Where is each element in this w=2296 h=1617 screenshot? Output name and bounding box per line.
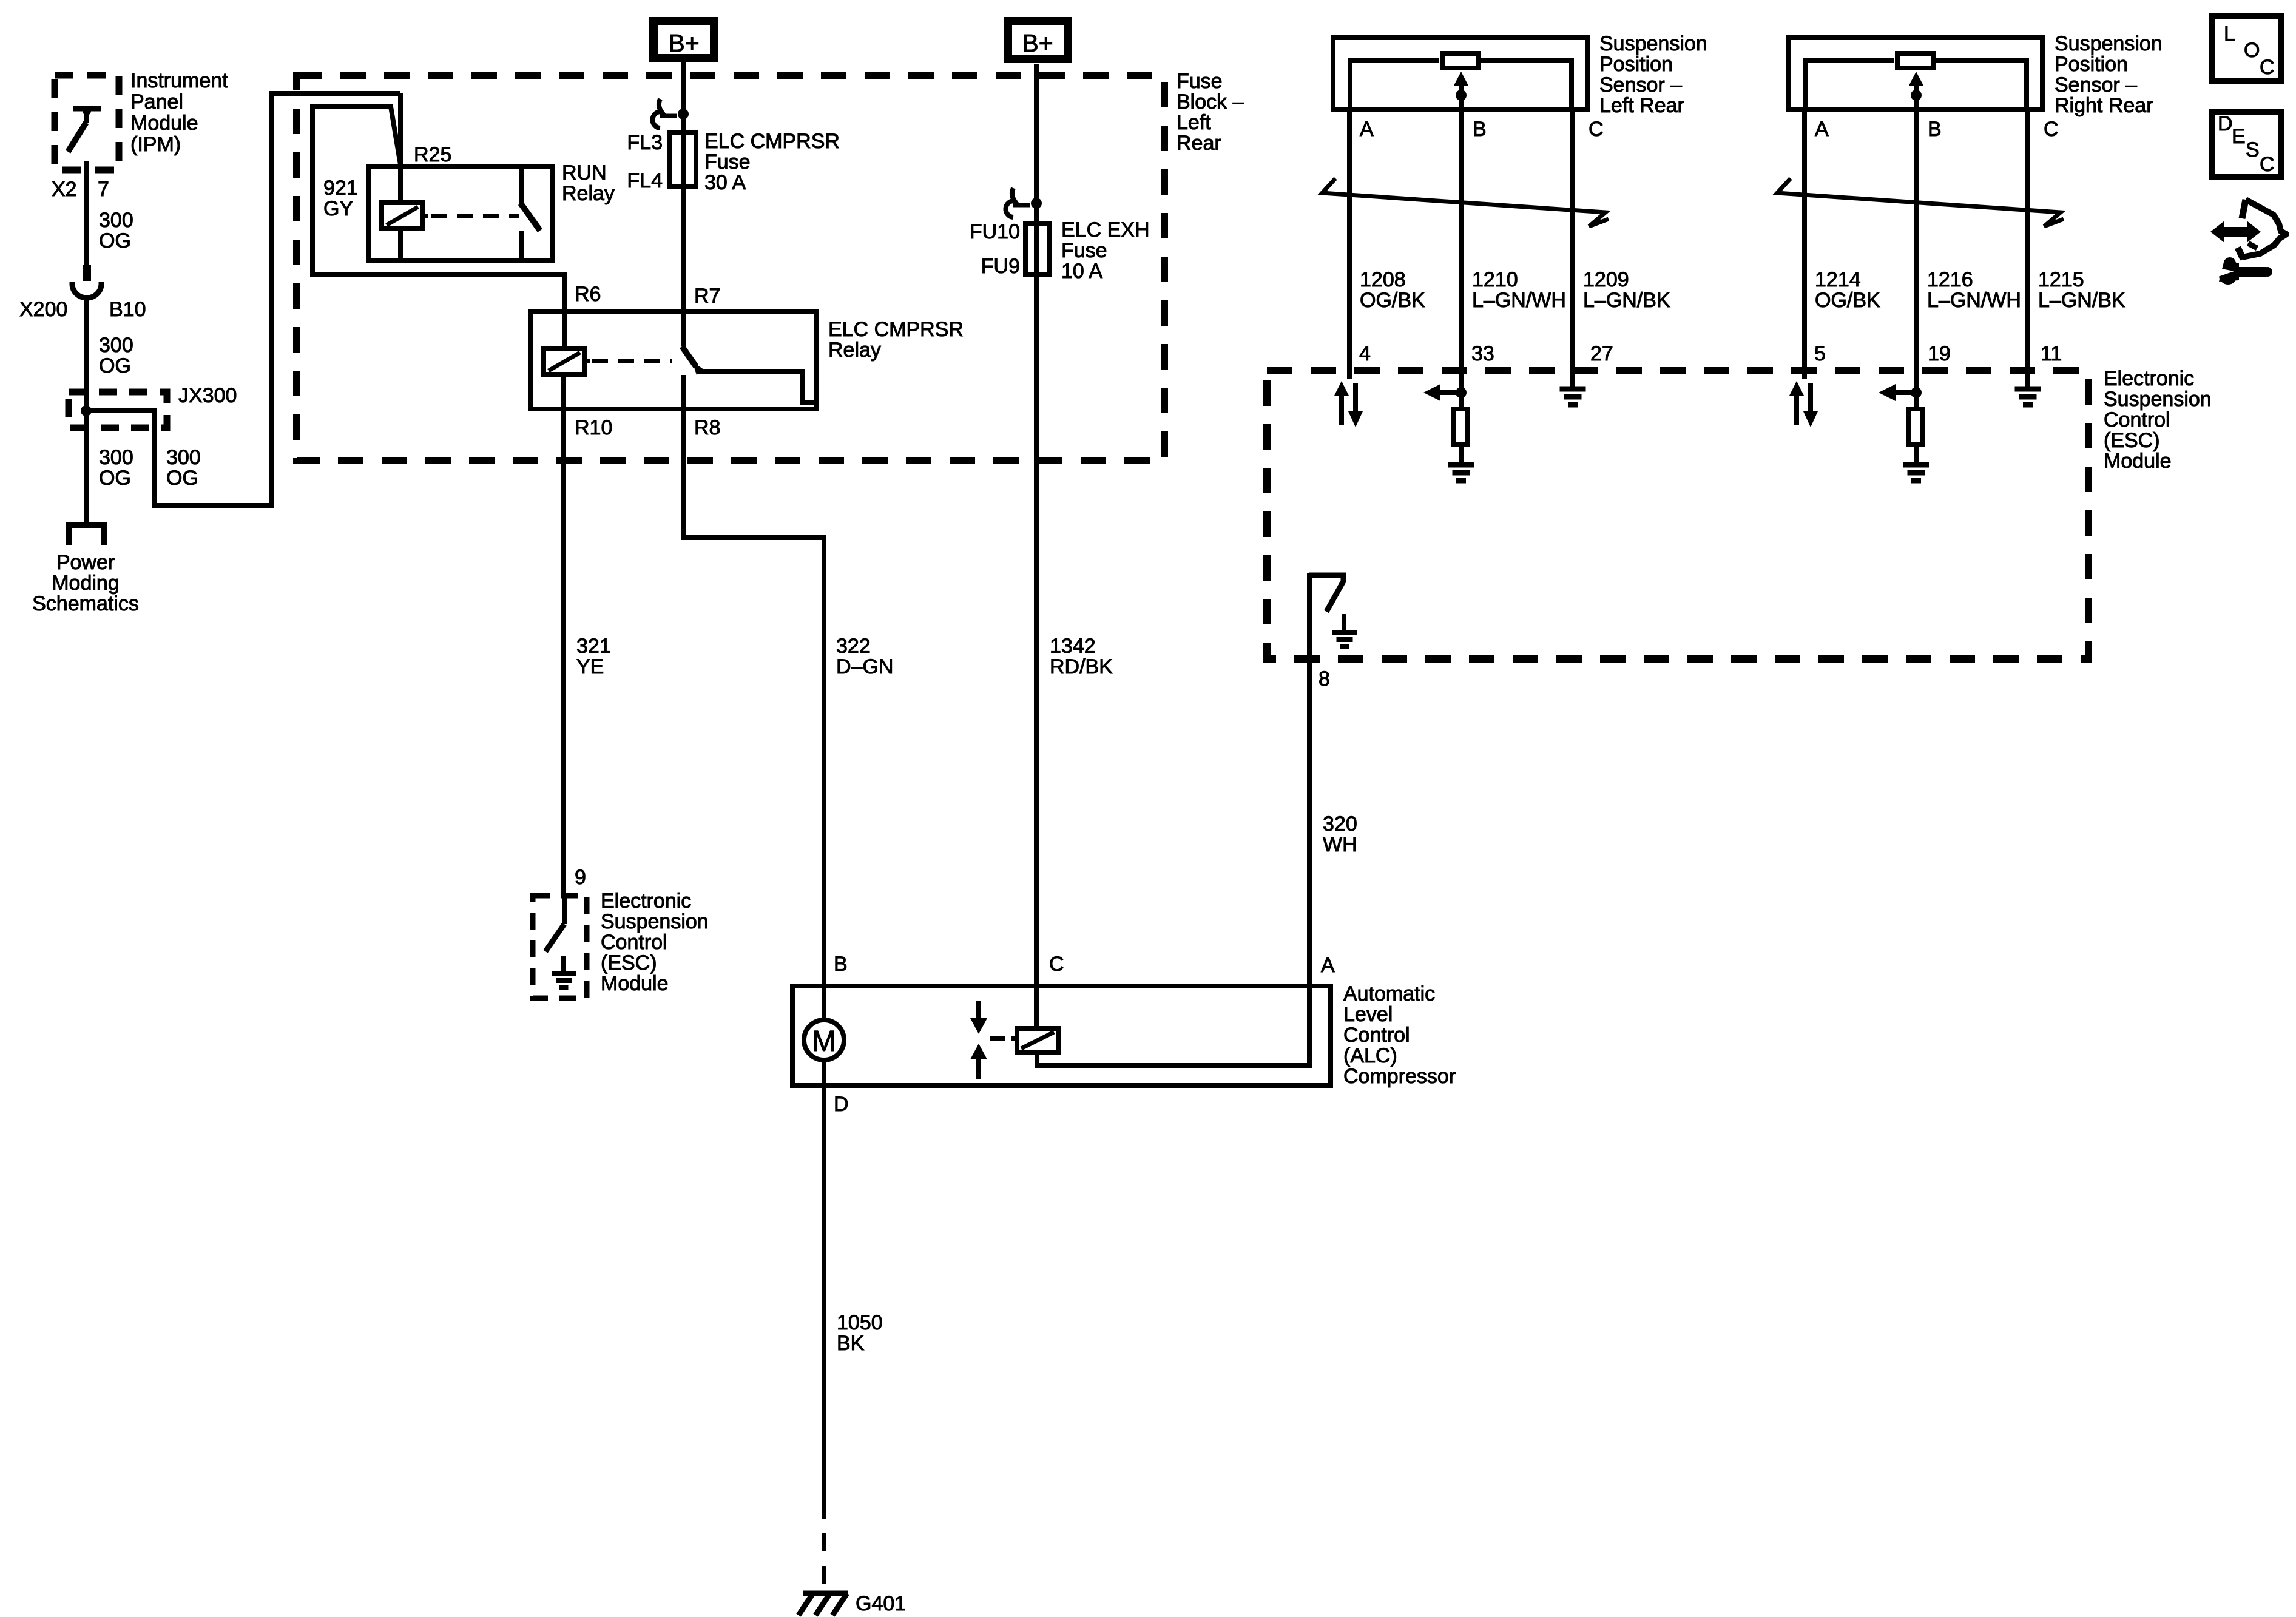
svg-text:Suspension: Suspension	[601, 910, 709, 933]
svg-text:R8: R8	[694, 416, 720, 439]
svg-text:B: B	[1473, 118, 1487, 141]
svg-text:JX300: JX300	[178, 384, 237, 407]
svg-text:1214: 1214	[1815, 268, 1861, 291]
svg-text:1210: 1210	[1472, 268, 1518, 291]
svg-text:Rear: Rear	[1177, 132, 1221, 155]
svg-text:Relay: Relay	[828, 339, 881, 362]
svg-text:Instrument: Instrument	[130, 69, 228, 92]
svg-text:Suspension: Suspension	[1599, 32, 1707, 55]
svg-text:27: 27	[1590, 342, 1613, 365]
svg-text:Electronic: Electronic	[601, 890, 691, 913]
svg-text:Left: Left	[1177, 111, 1211, 134]
svg-text:G401: G401	[856, 1592, 906, 1615]
svg-text:ELC CMPRSR: ELC CMPRSR	[704, 130, 840, 153]
svg-text:A: A	[1321, 954, 1335, 977]
svg-text:Automatic: Automatic	[1343, 982, 1435, 1005]
svg-text:X2: X2	[52, 178, 77, 201]
svg-text:Electronic: Electronic	[2104, 367, 2194, 390]
svg-text:321: 321	[576, 635, 611, 658]
svg-text:RUN: RUN	[562, 161, 607, 184]
svg-text:C: C	[1589, 118, 1604, 141]
svg-text:B: B	[834, 953, 848, 976]
svg-text:D–GN: D–GN	[836, 655, 893, 678]
svg-text:30 A: 30 A	[704, 171, 746, 194]
svg-text:R10: R10	[575, 416, 612, 439]
svg-text:5: 5	[1814, 342, 1826, 365]
svg-text:ELC EXH: ELC EXH	[1061, 218, 1150, 241]
svg-text:B: B	[1928, 118, 1942, 141]
svg-text:1216: 1216	[1927, 268, 1973, 291]
svg-text:FL4: FL4	[627, 169, 663, 192]
svg-text:Relay: Relay	[562, 182, 615, 205]
svg-text:OG/BK: OG/BK	[1815, 289, 1880, 312]
svg-text:(IPM): (IPM)	[130, 133, 181, 156]
svg-text:R6: R6	[575, 283, 601, 306]
svg-text:B+: B+	[1022, 29, 1053, 57]
svg-text:A: A	[1360, 118, 1374, 141]
svg-text:Sensor –: Sensor –	[1599, 73, 1682, 96]
svg-text:Module: Module	[601, 972, 669, 995]
svg-text:9: 9	[575, 866, 586, 889]
svg-text:D: D	[2218, 112, 2233, 135]
svg-text:FU10: FU10	[970, 220, 1020, 243]
svg-text:7: 7	[98, 178, 109, 201]
svg-text:Module: Module	[2104, 450, 2172, 473]
svg-text:322: 322	[836, 635, 871, 658]
svg-text:E: E	[2232, 125, 2246, 148]
svg-text:OG: OG	[99, 354, 131, 377]
svg-text:Module: Module	[130, 112, 198, 135]
svg-text:921: 921	[323, 177, 358, 200]
svg-text:B10: B10	[109, 298, 146, 321]
svg-text:Position: Position	[1599, 53, 1673, 76]
svg-text:Panel: Panel	[130, 90, 183, 113]
svg-text:GY: GY	[323, 197, 353, 220]
svg-text:300: 300	[99, 334, 133, 357]
svg-text:L: L	[2224, 22, 2235, 46]
svg-text:BK: BK	[837, 1332, 865, 1355]
svg-text:C: C	[1049, 953, 1064, 976]
svg-text:Fuse: Fuse	[1177, 70, 1223, 93]
svg-text:19: 19	[1928, 342, 1951, 365]
svg-text:L–GN/WH: L–GN/WH	[1472, 289, 1566, 312]
svg-text:Power: Power	[56, 551, 115, 574]
svg-text:RD/BK: RD/BK	[1050, 655, 1113, 678]
svg-text:FL3: FL3	[627, 131, 663, 154]
svg-text:B+: B+	[668, 29, 699, 57]
svg-text:YE: YE	[576, 655, 604, 678]
svg-text:Control: Control	[2104, 408, 2170, 431]
svg-text:Left Rear: Left Rear	[1599, 94, 1684, 117]
svg-text:X200: X200	[19, 298, 67, 321]
svg-text:Suspension: Suspension	[2055, 32, 2163, 55]
svg-text:Sensor –: Sensor –	[2055, 73, 2137, 96]
svg-text:Fuse: Fuse	[1061, 239, 1107, 262]
svg-text:Suspension: Suspension	[2104, 388, 2212, 411]
svg-text:Fuse: Fuse	[704, 150, 751, 174]
svg-text:Schematics: Schematics	[32, 592, 139, 615]
svg-text:L–GN/BK: L–GN/BK	[1583, 289, 1670, 312]
svg-text:Level: Level	[1343, 1003, 1393, 1026]
svg-text:33: 33	[1471, 342, 1494, 365]
svg-text:11: 11	[2041, 342, 2062, 365]
svg-text:(ALC): (ALC)	[1343, 1044, 1397, 1067]
svg-text:R7: R7	[694, 285, 720, 308]
svg-text:A: A	[1815, 118, 1829, 141]
svg-text:Control: Control	[1343, 1024, 1410, 1047]
svg-text:Compressor: Compressor	[1343, 1065, 1456, 1088]
svg-text:C: C	[2044, 118, 2059, 141]
svg-text:D: D	[834, 1093, 849, 1116]
svg-text:Block –: Block –	[1177, 90, 1244, 113]
svg-text:O: O	[2244, 39, 2260, 62]
svg-text:OG/BK: OG/BK	[1360, 289, 1425, 312]
svg-text:300: 300	[99, 446, 133, 469]
svg-text:320: 320	[1323, 812, 1357, 836]
svg-text:M: M	[812, 1025, 836, 1058]
svg-text:(ESC): (ESC)	[601, 951, 657, 974]
svg-text:FU9: FU9	[981, 255, 1020, 278]
svg-text:1208: 1208	[1360, 268, 1406, 291]
svg-text:OG: OG	[99, 229, 131, 252]
svg-text:C: C	[2260, 56, 2275, 79]
svg-text:Position: Position	[2055, 53, 2128, 76]
svg-text:L–GN/BK: L–GN/BK	[2038, 289, 2125, 312]
svg-text:1342: 1342	[1050, 635, 1096, 658]
svg-text:Control: Control	[601, 931, 667, 954]
svg-text:4: 4	[1359, 342, 1371, 365]
svg-text:Right Rear: Right Rear	[2055, 94, 2153, 117]
svg-text:ELC CMPRSR: ELC CMPRSR	[828, 318, 964, 341]
svg-text:WH: WH	[1323, 833, 1357, 856]
svg-text:OG: OG	[99, 467, 131, 490]
svg-text:S: S	[2246, 138, 2260, 161]
svg-text:L–GN/WH: L–GN/WH	[1927, 289, 2021, 312]
svg-text:(ESC): (ESC)	[2104, 429, 2160, 452]
svg-text:R25: R25	[414, 143, 451, 166]
svg-text:1209: 1209	[1583, 268, 1629, 291]
svg-text:10 A: 10 A	[1061, 260, 1102, 283]
svg-text:Moding: Moding	[52, 572, 120, 595]
svg-text:1050: 1050	[837, 1311, 883, 1334]
svg-text:OG: OG	[166, 467, 198, 490]
svg-text:C: C	[2260, 153, 2275, 176]
svg-text:8: 8	[1319, 667, 1330, 690]
svg-text:300: 300	[166, 446, 201, 469]
svg-text:300: 300	[99, 209, 133, 232]
svg-text:1215: 1215	[2038, 268, 2084, 291]
